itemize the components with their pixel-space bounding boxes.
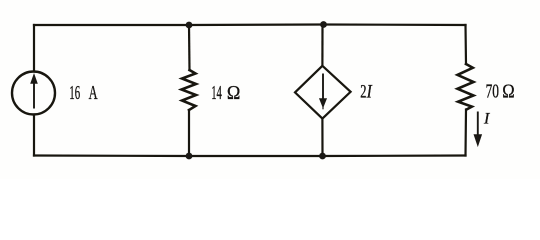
wire top-middle segment bbox=[189, 23, 324, 26]
svg-text:I: I bbox=[366, 82, 373, 103]
svg-text:14: 14 bbox=[211, 82, 222, 104]
wire left branch lower bbox=[33, 115, 35, 156]
dependent source diamond bbox=[295, 66, 351, 119]
svg-text:Ω: Ω bbox=[502, 81, 514, 103]
label 70 ohm bbox=[486, 81, 515, 103]
resistor R2 70 ohm zigzag bbox=[458, 64, 474, 110]
wire left branch upper bbox=[33, 25, 35, 72]
svg-text:16: 16 bbox=[69, 82, 80, 104]
wire bottom-left segment bbox=[34, 154, 189, 157]
wire bottom-middle segment bbox=[189, 155, 323, 157]
wire top-left segment bbox=[34, 24, 189, 26]
branch current arrow I bbox=[474, 112, 481, 146]
wire right branch lower bbox=[464, 110, 467, 156]
svg-text:A: A bbox=[89, 82, 98, 104]
svg-text:Ω: Ω bbox=[227, 82, 241, 104]
wire right branch upper bbox=[464, 25, 467, 64]
wire top-right segment bbox=[324, 23, 466, 26]
svg-text:2: 2 bbox=[360, 82, 366, 103]
label 2I bbox=[360, 82, 373, 103]
junction dot top node A bbox=[186, 22, 193, 29]
junction dot top node B bbox=[320, 21, 327, 28]
svg-text:70: 70 bbox=[486, 81, 499, 103]
current source I1 circle bbox=[12, 72, 55, 115]
label 16 A bbox=[69, 82, 98, 104]
wire node B lower bbox=[321, 119, 323, 156]
current source I1 arrow bbox=[31, 75, 37, 109]
wire node A lower bbox=[188, 110, 190, 156]
junction dot bottom node B bbox=[319, 153, 326, 160]
junction dot bottom node A bbox=[186, 153, 193, 160]
wire node B upper bbox=[321, 25, 323, 66]
resistor R1 14 ohm zigzag bbox=[182, 70, 197, 110]
dependent source arrow bbox=[320, 74, 327, 110]
label 14 ohm bbox=[211, 82, 240, 104]
svg-text:I: I bbox=[483, 111, 490, 128]
wire bottom-right segment bbox=[323, 154, 466, 157]
wire node A upper bbox=[188, 25, 191, 70]
